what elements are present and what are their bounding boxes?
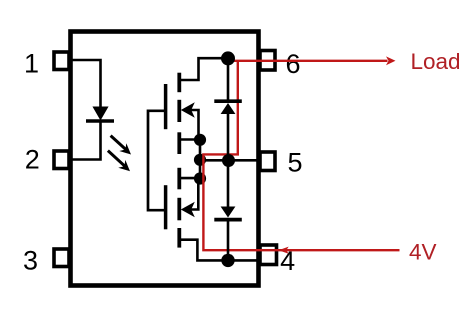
svg-text:5: 5 (287, 147, 302, 177)
diode D3 cathode bar (214, 218, 242, 222)
transistor Q1 drain channel bar (177, 73, 181, 93)
junction dot source Q1 (194, 134, 206, 146)
junction dot mid column (194, 154, 206, 166)
svg-text:1: 1 (24, 48, 39, 78)
LED D1 triangle (93, 107, 107, 120)
svg-text:3: 3 (23, 245, 38, 275)
transistor Q1 body wire (190, 110, 199, 137)
pin 5 pad (260, 152, 275, 171)
pin label 6 (285, 49, 300, 79)
gate bus wire (148, 111, 165, 210)
transistor Q2 body wire (190, 180, 198, 210)
red arrow head Load (386, 56, 396, 65)
light arrow 1 shaft (111, 136, 126, 150)
red wire node A to Load (231, 60, 388, 62)
transistor Q1 body arrow (181, 102, 195, 118)
transistor Q2 gate bar (164, 185, 168, 229)
pin label 1 (24, 48, 39, 78)
pin 6 pad (260, 51, 275, 71)
label 4V (409, 239, 437, 264)
pin label 2 (25, 145, 40, 175)
LED D1 cathode bar (86, 119, 114, 122)
wire diode D3 to node B (227, 220, 230, 261)
transistor Q1 source wire (180, 138, 198, 141)
pin label 3 (23, 245, 38, 275)
transistor Q2 body channel bar (177, 198, 181, 221)
svg-text:Load: Load (411, 49, 461, 74)
junction dot source Q2 (194, 172, 206, 184)
transistor Q1 drain wire to node A (180, 58, 225, 80)
transistor Q2 drain wire to node B (180, 240, 257, 261)
svg-text:2: 2 (25, 145, 40, 175)
package outline U1 (71, 32, 259, 286)
pin 3 pad (54, 249, 69, 267)
light arrow 1 head (119, 143, 131, 154)
transistor Q1 source channel bar (177, 132, 181, 154)
label Load (411, 49, 461, 74)
diode D2 cathode bar (214, 99, 242, 103)
wire LED cathode to pin2 (69, 122, 101, 160)
wire node A to diode D2 (227, 58, 230, 100)
light arrow 2 shaft (108, 151, 125, 167)
transistor Q2 drain channel bar (177, 228, 181, 248)
node A junction dot (221, 51, 235, 65)
svg-text:6: 6 (285, 49, 300, 79)
wire pin1 to LED anode (69, 60, 101, 108)
pin 4 pad (260, 245, 277, 265)
pin 2 pad (54, 151, 69, 169)
transistor Q2 body arrow (181, 202, 195, 218)
pin 1 pad (54, 52, 69, 70)
transistor Q2 source wire (180, 177, 198, 180)
wire diode D2 to mid node (227, 114, 230, 160)
diode D2 triangle (221, 103, 236, 114)
junction dot diode column (222, 154, 235, 167)
wire mid node to diode D3 (227, 160, 230, 206)
wire mid node to pin5 (200, 159, 257, 162)
svg-text:4V: 4V (409, 239, 437, 264)
node B junction dot (221, 254, 234, 267)
transistor Q1 gate bar (164, 84, 168, 129)
transistor Q2 source channel bar (177, 168, 181, 190)
pin label 5 (287, 147, 302, 177)
red wire highlighted path (203, 61, 399, 250)
light arrow 2 head (118, 160, 130, 171)
diode D3 triangle (221, 207, 236, 218)
transistor Q1 body channel bar (177, 100, 181, 122)
red arrow head 4V (279, 247, 289, 254)
wire common source column (199, 140, 202, 179)
pin label 4 (280, 246, 295, 276)
